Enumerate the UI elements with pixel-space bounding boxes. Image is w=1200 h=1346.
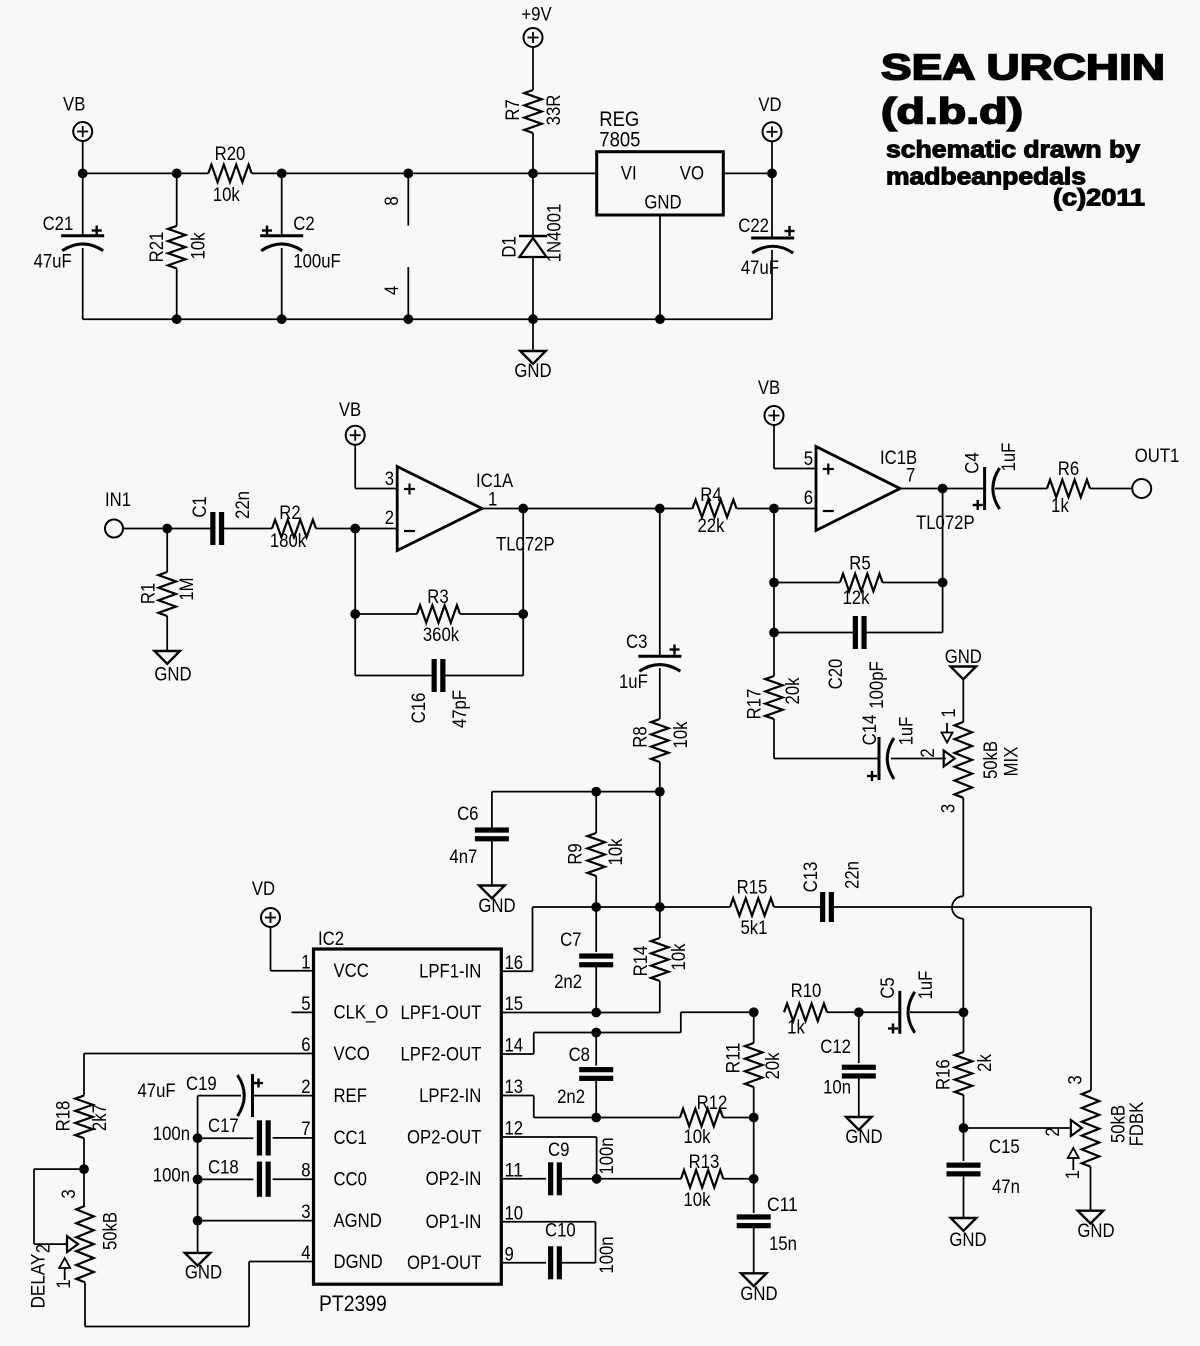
svg-text:8: 8 — [382, 196, 403, 205]
svg-text:4n7: 4n7 — [449, 847, 477, 868]
capacitor C7 — [554, 907, 613, 1013]
svg-text:(d.b.d): (d.b.d) — [881, 91, 1023, 132]
svg-text:LPF2-OUT: LPF2-OUT — [401, 1044, 482, 1065]
wire R2 to IC1A pin2 — [316, 524, 397, 534]
svg-text:R21: R21 — [147, 232, 168, 263]
svg-text:GND: GND — [740, 1284, 777, 1305]
resistor R5 — [774, 554, 947, 610]
svg-text:C6: C6 — [457, 804, 478, 825]
svg-text:47pF: 47pF — [450, 690, 471, 728]
svg-text:C11: C11 — [767, 1195, 798, 1216]
capacitor C9 — [501, 1137, 618, 1195]
svg-text:3: 3 — [59, 1189, 80, 1198]
svg-text:VCO: VCO — [334, 1044, 370, 1065]
pot FDBK wiper arrow — [1043, 1120, 1082, 1137]
svg-text:10k: 10k — [684, 1190, 711, 1211]
svg-text:1uF: 1uF — [619, 672, 648, 693]
svg-text:R6: R6 — [1058, 459, 1079, 480]
svg-text:13: 13 — [505, 1077, 524, 1098]
wire R16 to FDBK wiper — [964, 1127, 1071, 1129]
svg-text:100n: 100n — [597, 1236, 618, 1273]
svg-text:OUT1: OUT1 — [1135, 446, 1180, 467]
ground C12 — [845, 1117, 882, 1148]
svg-text:1k: 1k — [1051, 496, 1069, 517]
svg-text:GND: GND — [154, 665, 191, 686]
resistor R15 — [730, 878, 774, 940]
svg-text:GND: GND — [1077, 1221, 1114, 1242]
svg-text:OP1-IN: OP1-IN — [426, 1212, 482, 1233]
svg-text:12k: 12k — [843, 588, 870, 609]
capacitor C20 — [769, 616, 943, 709]
svg-text:C15: C15 — [989, 1137, 1020, 1158]
svg-text:FDBK: FDBK — [1127, 1101, 1148, 1146]
capacitor C3 — [619, 509, 681, 720]
wire AGND pin3 — [198, 1220, 314, 1222]
svg-text:10k: 10k — [213, 185, 240, 206]
svg-text:50kB: 50kB — [100, 1212, 121, 1250]
resistor R21 — [147, 173, 210, 319]
svg-text:VI: VI — [621, 164, 637, 185]
resistor R11 — [724, 1007, 785, 1117]
svg-text:R11: R11 — [724, 1043, 745, 1074]
wire DELAY to DGND pin4 — [85, 1262, 314, 1327]
op-amp IC1A — [385, 467, 555, 556]
svg-text:1uF: 1uF — [916, 971, 937, 1000]
svg-text:VO: VO — [680, 164, 704, 185]
svg-text:C12: C12 — [820, 1037, 851, 1058]
diode D1 — [499, 173, 565, 319]
svg-text:VB: VB — [758, 378, 780, 399]
svg-text:R13: R13 — [689, 1152, 720, 1173]
svg-text:VCC: VCC — [334, 961, 369, 982]
svg-text:(c)2011: (c)2011 — [1053, 185, 1145, 212]
svg-text:22k: 22k — [698, 516, 725, 537]
svg-text:6: 6 — [804, 488, 813, 509]
pot MIX — [939, 708, 1023, 813]
svg-text:C3: C3 — [626, 632, 647, 653]
power symbol VD IC2 — [252, 879, 314, 971]
resistor R20 — [208, 144, 251, 206]
wire IC1B feedback left — [769, 509, 779, 633]
svg-text:360k: 360k — [423, 625, 460, 646]
svg-text:1M: 1M — [177, 577, 198, 600]
svg-text:100uF: 100uF — [293, 252, 340, 273]
svg-text:10k: 10k — [671, 721, 692, 748]
svg-text:VD: VD — [758, 95, 781, 116]
svg-text:R4: R4 — [700, 485, 722, 506]
svg-text:IC2: IC2 — [318, 929, 344, 950]
capacitor C17 — [153, 1116, 314, 1156]
svg-text:100n: 100n — [153, 1166, 190, 1187]
capacitor C22 — [738, 173, 794, 319]
ground R1 — [154, 651, 191, 686]
pot DELAY wiper loop — [34, 1169, 85, 1253]
resistor R14 — [631, 907, 690, 1013]
resistor R17 — [745, 633, 805, 759]
svg-text:22n: 22n — [233, 491, 254, 519]
wire IC1A feedback left — [350, 529, 360, 676]
node VB rail junctions — [78, 169, 538, 179]
pin 5 stub — [292, 1011, 314, 1013]
capacitor C16 — [355, 659, 523, 728]
svg-text:1: 1 — [488, 490, 497, 511]
capacitor C6 — [449, 792, 509, 886]
svg-text:3: 3 — [939, 804, 960, 813]
svg-text:C19: C19 — [186, 1074, 217, 1095]
svg-text:2: 2 — [918, 748, 939, 757]
wire pin13 route — [501, 1096, 680, 1123]
wire C1 to R2 — [222, 528, 272, 530]
svg-text:GND: GND — [949, 1230, 986, 1251]
resistor R18 — [53, 1096, 111, 1174]
svg-text:12: 12 — [505, 1119, 524, 1140]
capacitor C19 — [138, 1074, 314, 1117]
svg-text:R14: R14 — [631, 945, 652, 976]
wire IC1A feedback right — [522, 509, 524, 676]
resistor R2 — [270, 503, 316, 552]
svg-text:2: 2 — [34, 1244, 55, 1253]
svg-text:VD: VD — [252, 879, 275, 900]
wire pin15 row — [501, 1008, 660, 1018]
svg-text:7: 7 — [906, 466, 915, 487]
wire REG GND down — [655, 215, 665, 324]
svg-text:VB: VB — [339, 400, 361, 421]
svg-text:C22: C22 — [738, 216, 769, 237]
svg-text:LPF1-IN: LPF1-IN — [419, 962, 481, 983]
resistor R4 — [660, 485, 816, 537]
svg-text:schematic drawn by: schematic drawn by — [886, 137, 1141, 164]
svg-text:33R: 33R — [544, 95, 565, 126]
svg-text:2: 2 — [1043, 1127, 1064, 1136]
svg-text:C16: C16 — [409, 693, 430, 724]
svg-text:C18: C18 — [208, 1158, 239, 1179]
svg-text:R16: R16 — [934, 1059, 955, 1090]
svg-text:16: 16 — [505, 953, 524, 974]
svg-text:3: 3 — [1066, 1075, 1087, 1084]
svg-text:20k: 20k — [763, 1052, 784, 1079]
IC U2 PT2399 body — [314, 929, 502, 1316]
svg-text:REF: REF — [334, 1086, 367, 1107]
svg-text:OP2-OUT: OP2-OUT — [407, 1127, 482, 1148]
svg-text:R17: R17 — [745, 689, 766, 720]
svg-text:D1: D1 — [499, 236, 520, 257]
svg-text:C8: C8 — [569, 1045, 590, 1066]
svg-text:3: 3 — [385, 469, 394, 490]
resistor R6 — [1047, 459, 1133, 517]
svg-text:TL072P: TL072P — [916, 513, 975, 534]
svg-text:OP2-IN: OP2-IN — [426, 1169, 482, 1190]
svg-text:10k: 10k — [189, 232, 210, 259]
svg-text:C9: C9 — [548, 1140, 569, 1161]
pin 4 stub IC1 supply — [382, 267, 408, 319]
resistor R3 — [355, 587, 528, 646]
svg-text:47n: 47n — [992, 1177, 1020, 1198]
svg-text:R1: R1 — [139, 583, 160, 604]
svg-text:REG: REG — [599, 108, 639, 131]
svg-text:C4: C4 — [963, 452, 984, 474]
wire main VB rail — [83, 172, 597, 174]
svg-text:10k: 10k — [606, 838, 627, 865]
svg-text:C17: C17 — [208, 1116, 239, 1137]
capacitor C14 — [774, 714, 946, 781]
wire R8 to R14 column — [659, 792, 661, 907]
svg-text:R18: R18 — [53, 1101, 74, 1132]
op-amp IC1B — [804, 447, 975, 535]
resistor R1 — [139, 529, 199, 652]
capacitor C11 — [737, 1179, 798, 1274]
svg-text:LPF1-OUT: LPF1-OUT — [401, 1003, 482, 1024]
capacitor C2 — [260, 173, 340, 319]
resistor R12 — [680, 1093, 759, 1148]
svg-text:CLK_O: CLK_O — [334, 1003, 389, 1024]
svg-text:GND: GND — [845, 1127, 882, 1148]
wire pin6 VCO to R18 — [84, 1054, 314, 1096]
capacitor C12 — [820, 1012, 876, 1117]
wire C17 C18 AGND column — [193, 1096, 203, 1253]
svg-text:C7: C7 — [560, 930, 581, 951]
svg-text:1: 1 — [939, 708, 960, 717]
ground C6 — [478, 886, 515, 918]
svg-text:C10: C10 — [545, 1221, 576, 1242]
svg-text:2: 2 — [385, 508, 394, 529]
capacitor C18 — [153, 1158, 314, 1197]
svg-text:50kB: 50kB — [981, 741, 1002, 779]
svg-text:2k7: 2k7 — [90, 1104, 111, 1131]
svg-text:7805: 7805 — [599, 129, 640, 152]
svg-text:1: 1 — [1063, 1170, 1084, 1179]
svg-text:1k: 1k — [787, 1018, 805, 1039]
svg-text:VB: VB — [63, 95, 85, 116]
svg-text:C13: C13 — [801, 862, 822, 893]
pot FDBK — [1063, 1075, 1148, 1179]
ground FDBK — [1077, 1167, 1114, 1242]
wire pin12 route — [501, 1137, 601, 1184]
resistor R8 — [631, 719, 692, 792]
resistor R10 — [784, 981, 827, 1039]
capacitor C1 — [190, 491, 254, 545]
wire pin16 jog — [501, 907, 532, 971]
resistor R9 — [566, 792, 628, 907]
svg-text:GND: GND — [185, 1263, 222, 1284]
svg-text:5k1: 5k1 — [741, 918, 768, 939]
IC2 pin labels — [301, 952, 523, 1274]
capacitor C13 — [774, 861, 1091, 922]
svg-text:100n: 100n — [153, 1124, 190, 1145]
wire MIX3 down with hop — [952, 798, 963, 1012]
wire ground rail — [83, 314, 772, 324]
capacitor C5 — [878, 971, 968, 1034]
power symbol VB IC1B — [758, 378, 816, 469]
resistor R16 — [934, 1012, 996, 1133]
svg-text:R15: R15 — [737, 878, 768, 899]
svg-text:1: 1 — [54, 1279, 75, 1288]
svg-text:SEA URCHIN: SEA URCHIN — [881, 47, 1165, 88]
svg-text:TL072P: TL072P — [496, 535, 555, 556]
svg-text:DELAY: DELAY — [28, 1253, 49, 1308]
svg-text:GND: GND — [945, 647, 982, 668]
svg-text:1uF: 1uF — [999, 443, 1020, 472]
svg-text:4: 4 — [382, 285, 403, 295]
svg-text:CC0: CC0 — [334, 1169, 367, 1190]
svg-text:+9V: +9V — [521, 5, 551, 26]
svg-text:15n: 15n — [769, 1234, 797, 1255]
svg-text:180k: 180k — [270, 531, 307, 552]
svg-text:10n: 10n — [823, 1078, 851, 1099]
wire IC1A output — [482, 504, 665, 514]
svg-text:1N4001: 1N4001 — [545, 204, 566, 263]
svg-text:7: 7 — [301, 1119, 310, 1140]
svg-text:100pF: 100pF — [867, 661, 888, 708]
svg-text:GND: GND — [478, 896, 515, 917]
power symbol +9V — [521, 5, 551, 91]
svg-text:2n2: 2n2 — [554, 972, 582, 993]
svg-text:C20: C20 — [826, 659, 847, 690]
svg-text:C5: C5 — [878, 977, 899, 998]
ground C11 — [740, 1273, 777, 1305]
svg-text:PT2399: PT2399 — [319, 1291, 387, 1316]
capacitor C10 loop — [501, 1221, 618, 1280]
svg-text:OP1-OUT: OP1-OUT — [407, 1253, 482, 1274]
resistor R7 — [503, 90, 565, 133]
svg-text:22n: 22n — [843, 861, 864, 889]
svg-text:14: 14 — [505, 1036, 524, 1057]
capacitor C21 — [34, 173, 105, 319]
ground C15 — [949, 1218, 986, 1251]
pot MIX wiper arrow — [918, 748, 955, 766]
svg-text:CC1: CC1 — [334, 1128, 367, 1149]
capacitor C8 — [557, 1033, 613, 1118]
svg-text:R12: R12 — [697, 1093, 728, 1114]
resistor R13 — [597, 1152, 759, 1211]
power symbol VD — [758, 95, 781, 173]
svg-text:DGND: DGND — [334, 1252, 383, 1273]
wire R10 to C5 — [827, 1007, 900, 1017]
port IN1 — [105, 490, 131, 538]
title SEA URCHIN — [881, 47, 1165, 132]
svg-text:10k: 10k — [684, 1127, 711, 1148]
svg-text:LPF2-IN: LPF2-IN — [419, 1086, 481, 1107]
pin 8 stub IC1 supply — [382, 173, 408, 225]
port OUT1 — [1132, 446, 1179, 498]
svg-text:47uF: 47uF — [34, 252, 72, 273]
wire IC1B feedback right — [942, 489, 944, 633]
svg-text:GND: GND — [644, 193, 681, 214]
svg-text:20k: 20k — [783, 677, 804, 704]
wire R7 to main rail — [532, 133, 534, 173]
svg-text:C14: C14 — [860, 714, 881, 745]
svg-text:IN1: IN1 — [105, 490, 131, 511]
svg-text:2n2: 2n2 — [557, 1087, 585, 1108]
wire IC1B output — [900, 484, 985, 494]
wire C13 to FDBK pin3 — [1090, 907, 1092, 1091]
ground MIX — [945, 647, 982, 722]
capacitor C4 — [963, 443, 1047, 510]
power symbol VB IC1A — [339, 400, 397, 489]
wire R11 to R13 node — [753, 1118, 755, 1179]
svg-text:47uF: 47uF — [741, 258, 779, 279]
svg-text:10k: 10k — [669, 943, 690, 970]
ground — [514, 319, 551, 382]
wire IN1 to C1 — [123, 524, 213, 534]
svg-text:R8: R8 — [631, 726, 652, 747]
svg-text:R7: R7 — [503, 99, 524, 120]
svg-text:47uF: 47uF — [138, 1081, 176, 1102]
svg-text:R5: R5 — [849, 554, 870, 575]
wire pin14 route — [501, 1012, 753, 1054]
svg-text:15: 15 — [505, 994, 524, 1015]
svg-text:R20: R20 — [215, 144, 246, 165]
wire R15 node — [533, 902, 731, 912]
svg-text:R9: R9 — [566, 843, 587, 864]
svg-text:C21: C21 — [43, 214, 74, 235]
wire REG VO to VD — [723, 169, 777, 179]
regulator REG 7805 — [597, 108, 724, 215]
svg-text:C1: C1 — [190, 496, 211, 517]
svg-text:C2: C2 — [293, 214, 314, 235]
power symbol VB — [63, 95, 92, 174]
svg-text:MIX: MIX — [1002, 746, 1023, 776]
svg-text:GND: GND — [514, 361, 551, 382]
svg-text:2k: 2k — [975, 1054, 996, 1072]
svg-text:AGND: AGND — [334, 1211, 382, 1232]
svg-text:R10: R10 — [791, 981, 822, 1002]
svg-text:100n: 100n — [597, 1137, 618, 1174]
svg-text:R3: R3 — [427, 587, 448, 608]
svg-text:R2: R2 — [279, 503, 300, 524]
capacitor C15 — [947, 1128, 1020, 1218]
svg-text:5: 5 — [804, 449, 813, 470]
ground C17 C18 — [185, 1253, 222, 1284]
wire R8 bottom node — [492, 787, 665, 797]
svg-text:1uF: 1uF — [896, 717, 917, 746]
pot DELAY — [28, 1169, 121, 1308]
